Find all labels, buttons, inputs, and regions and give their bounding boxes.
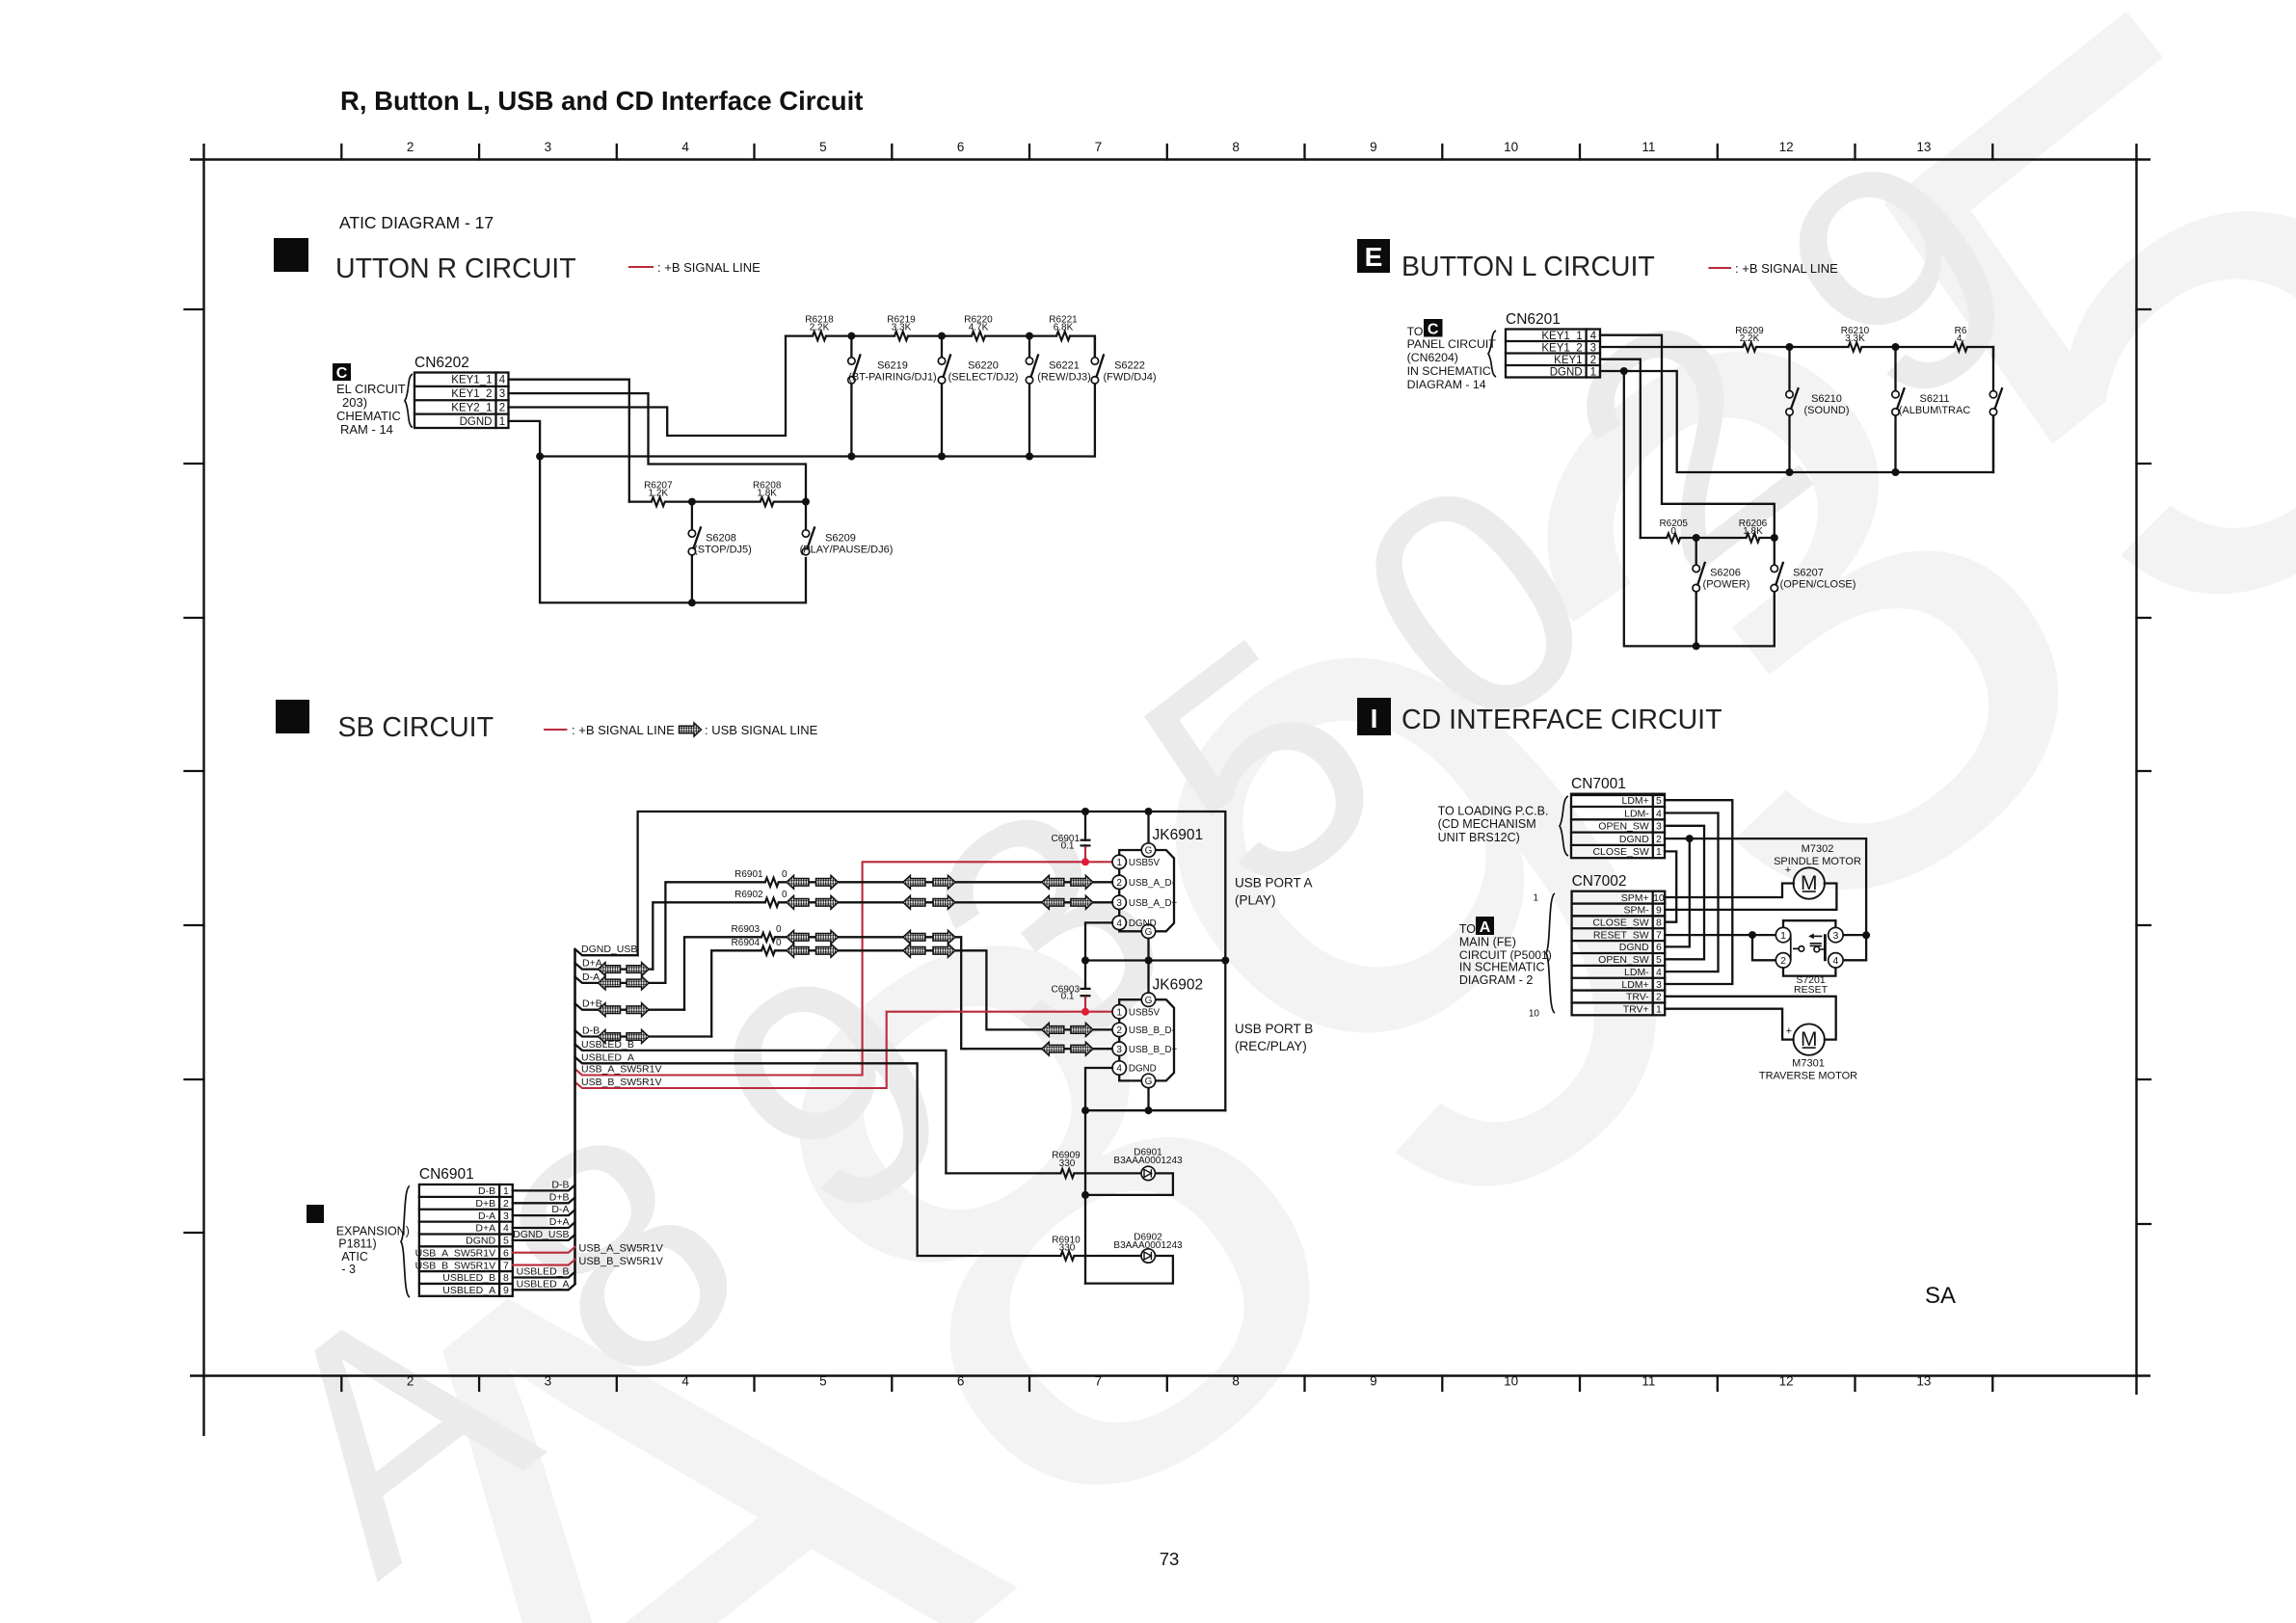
bus entry CN6901 pin 4 — [513, 1222, 575, 1228]
svg-text:CN7001: CN7001 — [1571, 776, 1626, 792]
svg-text:UTTON R CIRCUIT: UTTON R CIRCUIT — [335, 253, 576, 284]
junction bus S6210 — [1786, 468, 1794, 476]
wire DGND net (pin1) — [1600, 371, 1993, 472]
svg-text:: +B SIGNAL LINE: : +B SIGNAL LINE — [1735, 261, 1838, 276]
svg-text:SA: SA — [1925, 1283, 1956, 1309]
svg-text:IN SCHEMATIC: IN SCHEMATIC — [1407, 364, 1491, 378]
left border — [202, 144, 204, 1436]
svg-text:EL CIRCUIT: EL CIRCUIT — [336, 382, 406, 396]
brace CN7001 — [1560, 796, 1568, 856]
stub D+B — [575, 1003, 685, 1009]
svg-text:(PLAY/PAUSE/DJ6): (PLAY/PAUSE/DJ6) — [800, 545, 894, 556]
resistor R6221 — [1056, 332, 1070, 340]
svg-text:1: 1 — [1116, 1007, 1122, 1018]
svg-text:TO: TO — [1407, 325, 1424, 338]
resistor R6904 — [761, 946, 775, 955]
svg-text:13: 13 — [1916, 140, 1931, 154]
svg-text:USB_B_SW5R1V: USB_B_SW5R1V — [581, 1077, 661, 1088]
wire red USB5V B — [1084, 998, 1086, 1012]
junction central/D6901 — [1081, 1191, 1089, 1199]
usb arrows B_D- — [787, 944, 809, 957]
svg-text:DGND_USB: DGND_USB — [513, 1229, 569, 1240]
svg-text:2: 2 — [499, 402, 505, 413]
svg-text:S6219: S6219 — [877, 360, 908, 372]
junction DGND pin1 — [1620, 367, 1628, 375]
svg-text:I: I — [1371, 704, 1378, 733]
wire KEY1 net (pin2 riser) — [1600, 359, 1641, 538]
capacitor C6903 — [1084, 961, 1086, 998]
svg-text:S6206: S6206 — [1710, 568, 1741, 579]
svg-text:CN6202: CN6202 — [414, 355, 469, 371]
wire DGND net (pin1 riser and bus) — [509, 421, 807, 603]
svg-text:2: 2 — [1116, 1025, 1122, 1036]
wire RESET_SW net — [1665, 935, 1775, 960]
svg-text:CN6901: CN6901 — [419, 1166, 474, 1183]
svg-text:A: A — [1480, 919, 1491, 936]
svg-text:4: 4 — [1590, 331, 1597, 342]
junction red B — [1081, 1008, 1089, 1016]
svg-text:USB PORT B: USB PORT B — [1235, 1022, 1313, 1036]
junction R6206 right — [1771, 534, 1778, 542]
svg-text:CLOSE_SW: CLOSE_SW — [1592, 918, 1648, 929]
svg-text:330: 330 — [1059, 1243, 1076, 1254]
svg-text:C: C — [336, 365, 348, 382]
svg-text:3: 3 — [499, 388, 505, 400]
svg-text:4: 4 — [503, 1223, 509, 1235]
svg-text:9: 9 — [1656, 905, 1662, 917]
junction right S7201 — [1862, 931, 1870, 939]
stub D+A — [575, 963, 654, 969]
legend +B signal line (USB) — [545, 729, 566, 731]
resistor R6219 — [894, 332, 908, 340]
svg-text:4.7K: 4.7K — [969, 323, 989, 333]
svg-text:6.8K: 6.8K — [1054, 323, 1074, 333]
resistor R6211 (label cut) — [1954, 342, 1967, 351]
junction bus S6220 — [938, 453, 946, 461]
resistor R6206 — [1747, 533, 1760, 542]
svg-text:DGND: DGND — [466, 1236, 495, 1247]
svg-text:RESET_SW: RESET_SW — [1593, 929, 1649, 941]
connector CN6201 — [1506, 330, 1600, 378]
junction chain S6220 — [938, 333, 946, 340]
svg-text:DIAGRAM - 2: DIAGRAM - 2 — [1459, 973, 1533, 987]
svg-text:RAM - 14: RAM - 14 — [340, 422, 393, 437]
wire red USB5V A — [1084, 847, 1086, 862]
wire LDM+ net — [1665, 800, 1732, 984]
svg-text:1: 1 — [1590, 366, 1596, 378]
wire KEY1_2 net (pin3 to R6208 right) — [509, 393, 807, 501]
svg-text:3: 3 — [1656, 979, 1662, 991]
svg-text:(SELECT/DJ2): (SELECT/DJ2) — [948, 372, 1019, 384]
brace CN6901 — [401, 1186, 410, 1298]
svg-text:6: 6 — [957, 140, 965, 154]
svg-text:R6901: R6901 — [734, 869, 763, 880]
bus entry CN6901 pin 6 — [513, 1247, 575, 1253]
stub DGND_USB — [575, 949, 638, 955]
wire JK6902 DGND bus2 — [1085, 1068, 1225, 1110]
svg-text:0.1: 0.1 — [1061, 840, 1075, 851]
svg-text:DGND: DGND — [1129, 918, 1157, 929]
junction chain S6221 — [1026, 333, 1033, 340]
svg-text:11: 11 — [1642, 140, 1655, 154]
switch S6210 — [1788, 347, 1790, 472]
svg-text:USB_B_SW5R1V: USB_B_SW5R1V — [415, 1260, 495, 1271]
svg-text:3: 3 — [545, 1374, 552, 1389]
motor M7301 traverse — [1794, 1024, 1825, 1054]
svg-text:(REW/DJ3): (REW/DJ3) — [1037, 372, 1091, 384]
brace CN6201 — [1488, 331, 1496, 377]
bus entry CN6901 pin 3 — [513, 1210, 575, 1215]
svg-text:4: 4 — [681, 1374, 689, 1389]
svg-text:DGND: DGND — [460, 416, 493, 428]
svg-text:R6904: R6904 — [732, 938, 761, 948]
svg-text:USB_A_SW5R1V: USB_A_SW5R1V — [415, 1247, 495, 1259]
svg-text:10: 10 — [1504, 1374, 1518, 1389]
junction chain S6219 — [847, 333, 855, 340]
svg-text:D-B: D-B — [478, 1185, 495, 1197]
svg-text:D-A: D-A — [582, 971, 600, 983]
svg-text:DGND: DGND — [1129, 1064, 1157, 1075]
border ticks left — [185, 308, 204, 310]
svg-text:USBLED_A: USBLED_A — [442, 1285, 495, 1296]
svg-text:2: 2 — [1590, 355, 1596, 366]
svg-text:(POWER): (POWER) — [1703, 579, 1750, 591]
svg-text:S6211: S6211 — [1920, 393, 1950, 405]
wire R6205 row — [1641, 537, 1775, 539]
svg-text:P1811): P1811) — [338, 1237, 376, 1251]
resistor R6207 — [652, 497, 665, 506]
svg-text:9: 9 — [1370, 140, 1377, 154]
wire USB_B_D- net (R6904) — [711, 950, 1112, 1036]
svg-text:203): 203) — [342, 395, 367, 410]
svg-text:S6222: S6222 — [1114, 360, 1145, 372]
connector CN7001 — [1571, 794, 1665, 859]
svg-text:S6208: S6208 — [706, 533, 736, 545]
wire USB_A_D- net (R6901) — [665, 882, 1112, 983]
svg-text:USBLED_A: USBLED_A — [581, 1051, 634, 1063]
wire USB_A_D+ net (R6902) — [653, 902, 1112, 969]
junction red A — [1081, 858, 1089, 865]
svg-text:(OPEN/CLOSE): (OPEN/CLOSE) — [1780, 579, 1856, 591]
svg-text:USBLED_A: USBLED_A — [517, 1278, 570, 1290]
svg-text:1: 1 — [503, 1185, 509, 1197]
svg-text:4: 4 — [1656, 808, 1662, 819]
svg-text:2: 2 — [1656, 992, 1662, 1003]
header box E — [1357, 239, 1390, 273]
svg-text:0: 0 — [782, 869, 788, 880]
legend +B signal line (button R) — [629, 266, 653, 268]
svg-text:USB5V: USB5V — [1129, 858, 1161, 868]
svg-text:1.8K: 1.8K — [1743, 526, 1763, 537]
svg-text:1: 1 — [1116, 858, 1122, 868]
bus entry CN6901 pin 7 — [513, 1260, 575, 1265]
wire OPEN_SW net — [1665, 826, 1704, 960]
svg-text:USBLED_B: USBLED_B — [517, 1265, 570, 1277]
resistor R6902 — [765, 898, 779, 907]
switch S6206 — [1695, 538, 1697, 646]
svg-text:5: 5 — [819, 1374, 827, 1389]
svg-text:USB_A_D+: USB_A_D+ — [1129, 898, 1178, 909]
svg-text:0: 0 — [782, 890, 788, 900]
connector CN6901 — [419, 1184, 513, 1296]
resistor R6205 — [1667, 533, 1680, 542]
svg-text:USBLED_B: USBLED_B — [442, 1272, 495, 1284]
svg-text:G: G — [1145, 996, 1153, 1006]
svg-text:LDM-: LDM- — [1624, 967, 1649, 978]
ruler top line — [190, 158, 2150, 160]
svg-text:2: 2 — [407, 1374, 414, 1389]
switch S6207 — [1774, 538, 1775, 565]
wire LDM- net — [1665, 813, 1719, 972]
svg-text:1: 1 — [499, 416, 505, 428]
junction RESET_SW — [1749, 931, 1756, 939]
wire KEY2_1 net (pin2 to resistor chain) — [509, 336, 787, 436]
svg-text:8: 8 — [1232, 140, 1240, 154]
svg-text:DGND: DGND — [1619, 942, 1649, 953]
resistor R6220 — [972, 332, 985, 340]
svg-text:7: 7 — [1095, 1374, 1103, 1389]
svg-text:5: 5 — [1656, 954, 1662, 966]
switch unnamed — [1992, 347, 1994, 472]
stub D-B — [575, 1030, 712, 1036]
svg-text:E: E — [1365, 242, 1383, 272]
svg-text:S6209: S6209 — [825, 533, 856, 545]
svg-text:0: 0 — [776, 938, 782, 948]
svg-text:(CN6204): (CN6204) — [1407, 351, 1458, 364]
svg-text:12: 12 — [1779, 140, 1794, 154]
svg-text:R6902: R6902 — [734, 890, 763, 900]
svg-text:1: 1 — [1656, 846, 1662, 858]
svg-text:7: 7 — [1656, 929, 1662, 941]
svg-text:JK6902: JK6902 — [1153, 977, 1204, 994]
svg-text:IN SCHEMATIC: IN SCHEMATIC — [1459, 961, 1545, 974]
svg-text:ATIC DIAGRAM - 17: ATIC DIAGRAM - 17 — [339, 213, 494, 232]
svg-text:6: 6 — [503, 1247, 509, 1259]
svg-text:4: 4 — [1656, 967, 1662, 978]
switch S6211 — [1894, 347, 1896, 472]
svg-text:9: 9 — [1370, 1374, 1377, 1389]
svg-text:D+A: D+A — [475, 1223, 495, 1235]
svg-text:TRV+: TRV+ — [1623, 1004, 1649, 1016]
svg-text:USB_B_D-: USB_B_D- — [1129, 1025, 1175, 1036]
resistor R6901 — [765, 878, 779, 887]
usb arrows A_D- — [787, 875, 809, 889]
svg-text:0.1: 0.1 — [1061, 992, 1075, 1002]
svg-text:5: 5 — [1656, 795, 1662, 807]
wire DGND net — [1665, 838, 1866, 946]
svg-text:USB_A_SW5R1V: USB_A_SW5R1V — [581, 1064, 661, 1076]
svg-text:2.2K: 2.2K — [810, 323, 830, 333]
svg-text:4: 4 — [499, 375, 506, 386]
svg-text:3: 3 — [1116, 1045, 1122, 1055]
label C (panel circuit ref) — [333, 363, 351, 381]
svg-text:UNIT BRS12C): UNIT BRS12C) — [1438, 831, 1520, 844]
svg-text:1.8K: 1.8K — [757, 489, 777, 499]
svg-text:4: 4 — [1832, 955, 1838, 967]
wire central DGND drop — [1084, 1110, 1086, 1283]
svg-text:3: 3 — [1832, 930, 1838, 942]
svg-text:1: 1 — [1533, 893, 1538, 904]
svg-text:(CD MECHANISM: (CD MECHANISM — [1438, 817, 1536, 831]
svg-text:DGND_USB: DGND_USB — [581, 944, 637, 955]
svg-text:USBLED_B: USBLED_B — [581, 1039, 634, 1051]
brace CN7002 — [1546, 893, 1555, 1013]
svg-text:1.2K: 1.2K — [649, 489, 669, 499]
svg-text:ATIC: ATIC — [341, 1250, 368, 1264]
switch S6221 — [1028, 336, 1030, 457]
junction bottom S6206 — [1693, 642, 1700, 650]
stub spine (bus) — [574, 949, 576, 1284]
svg-text:1: 1 — [1780, 930, 1786, 942]
switch S7201 RESET — [1783, 920, 1835, 975]
svg-text:M7301: M7301 — [1792, 1058, 1825, 1070]
svg-text:RESET: RESET — [1794, 984, 1829, 996]
svg-text:13: 13 — [1916, 1374, 1931, 1389]
svg-text:6: 6 — [1656, 942, 1662, 953]
svg-text:USB5V: USB5V — [1129, 1007, 1161, 1018]
svg-text:M7302: M7302 — [1802, 843, 1834, 855]
svg-text:3.3K: 3.3K — [1845, 333, 1865, 344]
svg-text:USB_B_SW5R1V: USB_B_SW5R1V — [578, 1256, 663, 1267]
svg-text:3: 3 — [545, 140, 552, 154]
svg-text:3: 3 — [1590, 342, 1596, 354]
svg-text:G: G — [1145, 846, 1153, 857]
legend +B signal line (button L) — [1710, 267, 1731, 269]
wire TRV+ net — [1665, 1009, 1793, 1040]
svg-text:- 3: - 3 — [341, 1263, 356, 1276]
svg-text:7: 7 — [503, 1260, 509, 1271]
svg-text:CD INTERFACE CIRCUIT: CD INTERFACE CIRCUIT — [1402, 705, 1722, 735]
capacitor C6901 — [1084, 811, 1086, 847]
svg-text:: +B SIGNAL LINE: : +B SIGNAL LINE — [572, 723, 675, 737]
svg-text:10: 10 — [1529, 1009, 1540, 1020]
junction R6207/S6208 — [688, 498, 696, 506]
resistor R6910 and diode D6902 loop — [918, 1256, 1173, 1284]
svg-text:LDM+: LDM+ — [1621, 979, 1648, 991]
junction bus S6211 — [1892, 468, 1900, 476]
svg-text:(PLAY): (PLAY) — [1235, 893, 1276, 908]
bus entry CN6901 pin 9 — [513, 1285, 575, 1290]
bus entry CN6901 pin 2 — [513, 1198, 575, 1204]
svg-text:TO: TO — [1459, 922, 1476, 936]
svg-text:(STOP/DJ5): (STOP/DJ5) — [694, 545, 752, 556]
svg-text:TO LOADING P.C.B.: TO LOADING P.C.B. — [1438, 805, 1549, 818]
svg-text:DGND: DGND — [1619, 834, 1649, 845]
svg-text:11: 11 — [1642, 1374, 1655, 1389]
black square (expansion ref) — [307, 1205, 324, 1223]
header black square (USB) — [276, 700, 309, 733]
svg-text:(ALBUM\TRAC: (ALBUM\TRAC — [1899, 405, 1971, 416]
svg-text:5: 5 — [503, 1236, 509, 1247]
svg-text:R6903: R6903 — [732, 924, 761, 935]
svg-text:4.: 4. — [1957, 333, 1964, 344]
svg-text:3: 3 — [503, 1211, 509, 1222]
svg-text:9: 9 — [503, 1285, 509, 1296]
svg-text:G: G — [1145, 1077, 1153, 1087]
svg-text:73: 73 — [1160, 1549, 1180, 1569]
svg-text:D+B: D+B — [549, 1191, 570, 1203]
brace CN6202 — [405, 374, 413, 428]
junction bus S6221 — [1026, 453, 1033, 461]
ruler bottom ticks — [340, 1376, 342, 1392]
svg-text:CLOSE_SW: CLOSE_SW — [1592, 846, 1648, 858]
svg-text:12: 12 — [1779, 1374, 1794, 1389]
wire KEY1_1 net (pin4 riser) — [1600, 335, 1775, 538]
resistor R6208 — [761, 497, 774, 506]
connector JK6902 — [1119, 999, 1174, 1080]
junction bottom S6208 — [688, 599, 696, 606]
wire R6207 row — [629, 500, 806, 502]
switch S6222 — [1094, 336, 1096, 457]
junction top C6901 — [1081, 808, 1089, 815]
resistor R6209 — [1743, 342, 1756, 351]
svg-text:D+A: D+A — [549, 1216, 570, 1228]
header black square — [274, 238, 308, 272]
bus entry CN6901 pin 5 — [513, 1235, 575, 1240]
svg-text:USB_A_SW5R1V: USB_A_SW5R1V — [578, 1242, 663, 1254]
wire TRV- net — [1665, 997, 1836, 1040]
junction top G — [1145, 808, 1153, 815]
svg-text:5: 5 — [819, 140, 827, 154]
ruler bottom line — [190, 1374, 2150, 1376]
svg-text:D-B: D-B — [551, 1179, 569, 1190]
svg-text:D-B: D-B — [582, 1025, 600, 1037]
svg-text:B3AAA0001243: B3AAA0001243 — [1113, 1240, 1183, 1251]
stub D-A — [575, 977, 666, 983]
svg-text:USB_A_D-: USB_A_D- — [1129, 878, 1175, 889]
svg-text:KEY2_1: KEY2_1 — [451, 402, 492, 413]
svg-text:SPINDLE MOTOR: SPINDLE MOTOR — [1774, 856, 1861, 867]
junction chain S6211 — [1892, 343, 1900, 351]
svg-text:DGND: DGND — [1550, 366, 1583, 378]
stub USBLED_B — [575, 1045, 947, 1174]
svg-text:3.3K: 3.3K — [892, 323, 912, 333]
svg-text:OPEN_SW: OPEN_SW — [1598, 821, 1649, 833]
wire KEY1_1 net (pin4 to R6207 row) — [509, 380, 629, 502]
svg-text:(FWD/DJ4): (FWD/DJ4) — [1104, 372, 1157, 384]
svg-text:10: 10 — [1653, 892, 1665, 904]
svg-text:+: + — [1786, 1025, 1792, 1037]
svg-text:R, Button L, USB and CD Interf: R, Button L, USB and CD Interface Circui… — [340, 86, 863, 116]
usb arrows B_D+ — [787, 930, 809, 944]
svg-text:LDM+: LDM+ — [1621, 795, 1648, 807]
wire USB_B_D+ net (R6903) — [684, 937, 1112, 1049]
svg-text:DIAGRAM - 14: DIAGRAM - 14 — [1407, 378, 1486, 391]
switch S6208 — [691, 502, 693, 603]
svg-text:S6220: S6220 — [968, 360, 999, 372]
svg-text:: USB SIGNAL LINE: : USB SIGNAL LINE — [705, 723, 818, 737]
svg-text:TRV-: TRV- — [1626, 992, 1649, 1003]
svg-text:8: 8 — [1232, 1374, 1240, 1389]
svg-text:OPEN_SW: OPEN_SW — [1598, 954, 1649, 966]
svg-text:4: 4 — [1116, 1064, 1122, 1075]
junction DGND — [1686, 835, 1694, 842]
svg-text:USB PORT A: USB PORT A — [1235, 876, 1313, 891]
svg-text:D-A: D-A — [551, 1204, 569, 1215]
right border — [2135, 144, 2137, 1395]
switch S6219 — [850, 336, 852, 457]
switch S6220 — [941, 336, 943, 457]
svg-text:2: 2 — [1656, 834, 1662, 845]
svg-text:2.2K: 2.2K — [1740, 333, 1760, 344]
svg-text:8: 8 — [503, 1272, 509, 1284]
svg-text:KEY1: KEY1 — [1554, 355, 1582, 366]
svg-text:0: 0 — [776, 924, 782, 935]
svg-text:7: 7 — [1095, 140, 1103, 154]
svg-text:CN6201: CN6201 — [1506, 311, 1561, 328]
svg-text:SPM+: SPM+ — [1621, 892, 1649, 904]
svg-text:(BT-PAIRING/DJ1): (BT-PAIRING/DJ1) — [848, 372, 936, 384]
